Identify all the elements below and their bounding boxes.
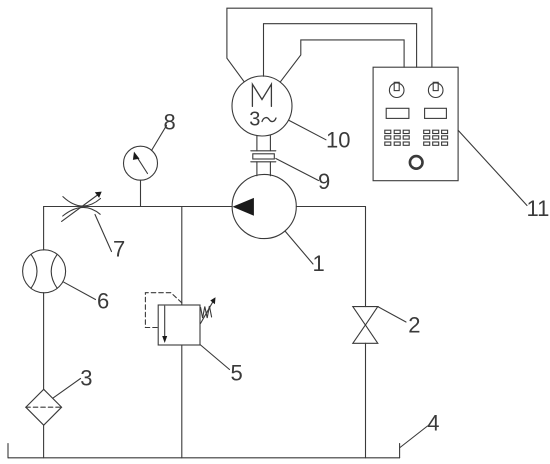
svg-text:11: 11 [527,196,550,221]
svg-text:4: 4 [427,411,439,436]
svg-text:1: 1 [313,251,325,276]
svg-text:3: 3 [249,108,260,130]
wire: left vertical to flow meter [43,207,45,251]
wire: outer electrical lead motor to panel [227,8,432,82]
gauge 8 [124,146,158,206]
round button [410,156,423,169]
wire: right branch to valve 2 [365,207,367,307]
svg-text:6: 6 [97,289,109,314]
svg-text:3: 3 [80,366,92,391]
flow meter 6 [23,250,66,293]
relief valve spring [201,306,212,318]
wire: flow meter to filter [43,293,45,390]
tank line 4 [8,457,400,459]
button grid right [424,130,448,145]
leader to label 6 [63,282,96,300]
button grid left [385,130,409,145]
gauge stem wire [140,180,142,206]
knob left [389,83,404,98]
display right [425,108,447,118]
leader to label 1 [285,231,313,264]
filter 3 [26,389,62,425]
control panel 11 [373,67,458,181]
display left [386,108,409,118]
wire: pump discharge line right [296,206,365,208]
svg-text:7: 7 [113,237,125,262]
leader to label 11 [458,130,527,205]
leader to label 7 [95,215,112,252]
relief valve pilot dashed line [145,293,181,328]
svg-text:10: 10 [326,128,350,153]
leader to label 8 [152,126,167,151]
motor U10 [232,76,292,136]
wire: middle electrical lead motor to panel [264,24,417,77]
leader to label 9 [276,159,319,181]
svg-text:5: 5 [231,361,243,386]
pump 1 [232,174,296,238]
knob right [428,83,443,98]
wire: valve 2 to tank [365,343,367,458]
wire: filter to tank [43,425,45,458]
tank tick right [399,444,401,458]
leader to label 5 [200,345,230,370]
wire: inner electrical lead motor to panel [280,40,404,82]
throttle valve 7 [62,192,102,222]
coupling 9 [251,136,276,176]
svg-text:2: 2 [408,312,420,337]
relief valve 5 [145,293,215,345]
svg-text:8: 8 [164,110,176,135]
leader to label 3 [53,379,81,399]
shut-off valve 2 [353,307,378,344]
leader to label 4 [400,426,428,448]
wire: relief valve branch upper [181,207,183,306]
leader to label 2 [378,307,406,322]
leader to label 10 [289,120,327,140]
wire: pump suction line left [44,206,233,208]
svg-text:9: 9 [318,169,330,194]
tank tick left [7,444,9,458]
wire: relief valve branch lower [181,345,183,458]
